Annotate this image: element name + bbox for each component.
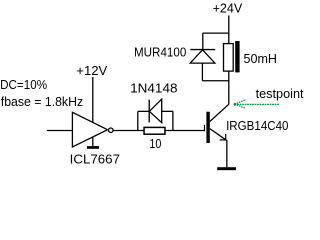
wire input to driver xyxy=(47,130,73,132)
testpoint arrow tip blob xyxy=(234,103,237,106)
wire top-right segment from diode xyxy=(162,110,173,112)
svg-text:+12V: +12V xyxy=(76,63,107,78)
ground bar under transistor xyxy=(217,167,236,170)
power +12V wire xyxy=(92,77,94,123)
wire emitter to ground xyxy=(226,140,228,167)
transistor Q1 emitter slant xyxy=(210,129,227,141)
wire driver output xyxy=(114,130,144,132)
wire riser to MUR4100 cathode xyxy=(202,33,204,50)
op-amp output inversion bubble xyxy=(109,128,114,133)
svg-text:ICL7667: ICL7667 xyxy=(70,151,120,166)
svg-text:50mH: 50mH xyxy=(244,51,278,66)
transistor Q1 emitter arrow barb horizontal xyxy=(220,139,226,141)
wire MUR4100 anode down xyxy=(201,63,203,81)
ground stub under driver xyxy=(92,137,94,146)
svg-text:1N4148: 1N4148 xyxy=(130,81,177,96)
testpoint arrow barb upper xyxy=(235,100,247,105)
diode D1 1N4148 cathode bar xyxy=(148,100,150,123)
wire top branch horizontal xyxy=(203,32,229,34)
diode D2 MUR4100 triangle xyxy=(190,50,215,63)
wire top-left segment to diode xyxy=(138,110,149,112)
svg-text:DC=10%: DC=10% xyxy=(0,77,47,92)
wire +24V down to inductor xyxy=(228,15,230,43)
svg-text:fbase = 1.8kHz: fbase = 1.8kHz xyxy=(1,94,83,109)
wire inductor bottom to collector xyxy=(228,71,230,104)
svg-text:MUR4100: MUR4100 xyxy=(134,45,186,60)
inductor L1 body rectangle xyxy=(224,44,234,72)
diode D2 MUR4100 cathode bar xyxy=(190,49,215,51)
wire resistor to gate xyxy=(165,130,205,132)
ground bar under driver xyxy=(87,146,99,149)
resistor R1 body xyxy=(144,127,165,134)
transistor Q1 gate plate tick xyxy=(204,125,206,131)
transistor Q1 body bar xyxy=(206,112,209,143)
svg-text:IRGB14C40: IRGB14C40 xyxy=(226,118,288,133)
testpoint arrow shaft xyxy=(235,103,280,105)
wire bottom branch horizontal xyxy=(202,80,228,82)
wire left riser of snubber branch xyxy=(137,111,139,130)
testpoint arrow barb lower xyxy=(235,104,246,108)
svg-text:10: 10 xyxy=(149,136,161,151)
wire right riser of snubber branch xyxy=(172,111,174,130)
svg-text:+24V: +24V xyxy=(213,0,243,15)
transistor Q1 collector slant xyxy=(210,104,229,121)
transistor Q1 emitter arrow barb vertical xyxy=(225,134,227,140)
svg-text:testpoint: testpoint xyxy=(256,86,304,101)
diode D1 1N4148 triangle xyxy=(149,99,161,123)
op-amp U1 driver triangle ICL7667 xyxy=(72,112,107,147)
inductor L1 core bar xyxy=(235,41,239,72)
